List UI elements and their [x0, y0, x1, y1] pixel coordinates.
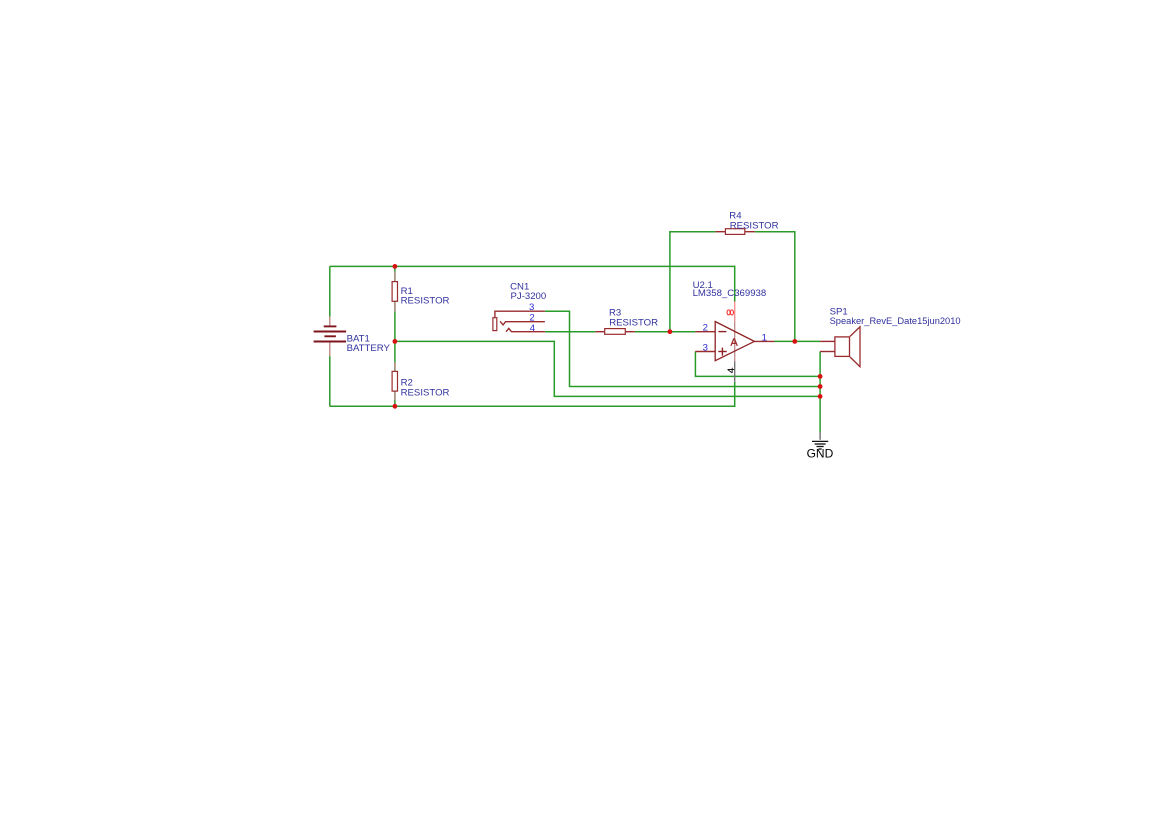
op-amp U2.1 pin1 lead — [755, 340, 775, 342]
wire CN1 pin4 to R3 — [545, 331, 595, 333]
label R2 RESISTOR — [401, 378, 450, 399]
svg-text:2: 2 — [529, 312, 534, 323]
op-amp U2.1 triangle body — [715, 322, 754, 361]
speaker SP1 — [820, 327, 860, 367]
resistor R3 — [595, 329, 635, 335]
op-amp U2.1 pin3 lead — [695, 351, 715, 353]
svg-text:RESISTOR: RESISTOR — [401, 387, 450, 398]
wire left rail battery bottom — [329, 356, 331, 406]
pin number 4 of CN1 — [530, 323, 536, 334]
wire pin2 node up to R4 left — [670, 232, 716, 332]
wire left rail battery top — [329, 266, 331, 316]
junction dot divider midpoint — [393, 339, 398, 344]
wire bottom rail to op-amp pin4 — [330, 382, 735, 406]
junction dot pin2 / R3 / R4 — [668, 329, 673, 334]
label BAT1 BATTERY — [347, 333, 391, 354]
label CN1 PJ-3200 — [510, 281, 546, 302]
pin number 2 of U2.1 — [703, 323, 708, 334]
battery BAT1 — [314, 316, 347, 356]
junction dot ground column / divider net — [818, 394, 823, 399]
pin number 3 of CN1 — [529, 302, 534, 313]
pin number 3 of U2.1 — [703, 342, 708, 353]
pin number 2 of CN1 — [529, 312, 534, 323]
label R1 RESISTOR — [401, 286, 450, 307]
label R3 RESISTOR — [609, 308, 658, 329]
label R4 RESISTOR — [729, 211, 778, 232]
pin number 1 of U2.1 — [762, 333, 767, 344]
junction dot ground column / CN1 pin3 net — [818, 384, 823, 389]
wire op-amp output to speaker — [775, 340, 821, 342]
svg-text:4: 4 — [530, 323, 536, 334]
op-amp U2.1 pin4 lead — [734, 362, 736, 382]
label SP1 Speaker_RevE_Date15jun2010 — [830, 306, 961, 327]
wire R3 to op-amp pin2 — [635, 331, 696, 333]
connector CN1 audio jack — [493, 311, 545, 332]
resistor R1 — [392, 272, 397, 312]
op-amp U2.1 pin2 lead — [695, 331, 715, 333]
pin number 8 of U2.1 (rotated, power) — [727, 310, 733, 315]
wire R1 column — [394, 266, 396, 341]
svg-text:BATTERY: BATTERY — [347, 343, 391, 354]
op-amp U2.1 pin8 lead — [734, 302, 736, 362]
wire R2 column — [394, 341, 396, 406]
wire op-amp pin3 to ground column — [695, 352, 820, 377]
label U2.1 LM358_C369938 — [693, 280, 767, 299]
svg-text:GND: GND — [807, 447, 834, 461]
wire ground column from speaker to GND — [819, 352, 821, 433]
junction dot output / R4 / speaker — [792, 339, 797, 344]
svg-text:2: 2 — [703, 323, 708, 334]
svg-text:RESISTOR: RESISTOR — [401, 296, 450, 307]
svg-text:Speaker_RevE_Date15jun2010: Speaker_RevE_Date15jun2010 — [830, 316, 961, 327]
wire CN1 pin3 to ground column — [545, 311, 820, 386]
svg-text:RESISTOR: RESISTOR — [609, 317, 658, 328]
resistor R4 — [715, 229, 754, 235]
svg-text:LM358_C369938: LM358_C369938 — [693, 288, 767, 299]
wire divider midpoint to ground column — [395, 341, 820, 396]
resistor R2 — [392, 362, 397, 400]
svg-text:RESISTOR: RESISTOR — [730, 220, 779, 231]
svg-text:1: 1 — [762, 333, 767, 344]
svg-text:PJ-3200: PJ-3200 — [511, 291, 547, 302]
wire R4 right down to output node — [755, 232, 795, 342]
wire top rail from BAT1+ to op-amp pin8 column — [330, 266, 735, 301]
svg-text:3: 3 — [703, 342, 708, 353]
junction dot bottom rail / R2 — [393, 404, 398, 409]
pin number 4 of U2.1 (rotated, power) — [728, 368, 735, 373]
junction dot ground column / pin3 net — [818, 374, 823, 379]
ground GND — [807, 432, 834, 461]
junction dot top rail / R1 — [393, 264, 398, 269]
